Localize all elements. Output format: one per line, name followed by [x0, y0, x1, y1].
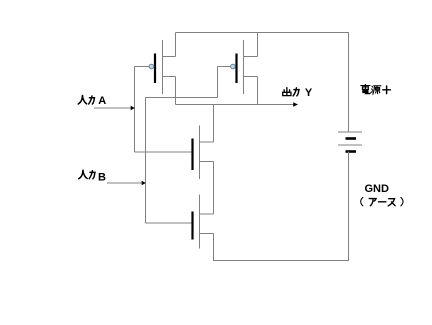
svg-text:Y: Y [305, 87, 313, 99]
wire input B vertical [145, 98, 147, 224]
nmos Q4 [193, 195, 214, 249]
wire input B arrow line [107, 182, 142, 184]
wire right rail lower (battery - to ground rail) [348, 152, 350, 262]
arrowhead output Y [293, 102, 298, 107]
nmos Q3 [193, 126, 214, 180]
label input A (入力A) [78, 95, 106, 107]
inversion bubble Q2 gate [231, 64, 236, 69]
wire ground bottom rail [214, 260, 350, 262]
node output Y line [176, 104, 294, 106]
label (アース) [361, 197, 403, 206]
wire Q2 gate lead [218, 66, 231, 68]
wire Q1 gate lead [135, 66, 150, 68]
svg-text:A: A [98, 95, 106, 107]
wire input B link to Q2 gate (vertical riser) [217, 67, 219, 98]
wire input A arrow line [94, 107, 131, 109]
wire VDD top rail [176, 32, 350, 34]
wire input B to Q4 gate [146, 222, 192, 224]
svg-text:GND: GND [365, 183, 390, 195]
label input B (入力B) [79, 170, 106, 183]
wire right rail upper (VDD to battery +) [348, 33, 350, 133]
arrowhead input A [131, 106, 135, 111]
arrowhead input B [142, 181, 146, 186]
svg-text:B: B [98, 171, 106, 183]
wire input A vertical [134, 67, 136, 153]
wire output node to Q3 drain [213, 105, 215, 143]
wire Q3 source to Q4 drain [213, 162, 215, 215]
wire input B link to Q2 gate (horizontal) [146, 97, 218, 99]
wire input A to Q3 gate [135, 151, 192, 153]
wire Q4 source to ground rail [213, 234, 215, 262]
label power supply (電源＋) [361, 85, 390, 95]
battery BT1 [338, 132, 362, 152]
label output Y (出力Y) [283, 87, 313, 99]
pmos Q1 [155, 33, 176, 105]
pmos Q2 [237, 33, 258, 105]
inversion bubble Q1 gate [149, 64, 154, 69]
